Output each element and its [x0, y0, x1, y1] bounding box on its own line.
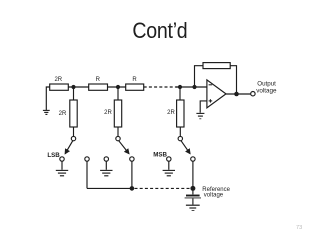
- resistor 2R (vertical, LSB branch): [70, 100, 77, 127]
- svg-text:Output: Output: [257, 80, 276, 87]
- switch S3 blade (arrow to bus throw): [181, 141, 190, 154]
- feedback wire (down to output): [230, 66, 236, 94]
- svg-text:LSB: LSB: [47, 152, 60, 159]
- wire resistor to switch pole: [179, 127, 181, 136]
- ground (op-amp non-inverting input): [196, 113, 204, 118]
- resistor 2R (top rail, horizontal): [50, 84, 69, 90]
- switch S2 pole terminal: [116, 136, 120, 140]
- node A (junction dot): [71, 85, 75, 89]
- wire battery to ground: [192, 199, 194, 205]
- svg-text:2R: 2R: [104, 110, 112, 116]
- svg-text:R: R: [96, 77, 101, 83]
- switch S1 pole terminal: [71, 136, 75, 140]
- page number: [296, 225, 302, 231]
- wire plus input to ground: [200, 101, 207, 113]
- node D feedback tap (junction dot): [192, 85, 196, 89]
- switch S1 bus throw terminal: [85, 157, 89, 161]
- svg-text:2R: 2R: [59, 111, 67, 117]
- svg-text:voltage: voltage: [204, 192, 224, 198]
- resistor R (top rail, second): [89, 84, 108, 90]
- node C (junction dot): [178, 85, 182, 89]
- switch S2 ground throw terminal: [104, 157, 108, 161]
- svg-text:2R: 2R: [54, 77, 62, 83]
- resistor 2R (vertical, middle branch): [114, 100, 121, 127]
- switch S3 pole terminal: [178, 136, 182, 140]
- output terminal: [251, 92, 255, 96]
- svg-text:voltage: voltage: [256, 88, 277, 95]
- output junction dot: [234, 92, 239, 97]
- wire bus throw down to reference bus: [192, 161, 194, 188]
- reference bus wire (dashed part): [135, 187, 190, 189]
- op-amp minus input marker: [209, 84, 213, 86]
- feedback resistor: [203, 63, 230, 69]
- switch S3 bus throw terminal: [191, 157, 195, 161]
- wire throw to ground: [168, 161, 170, 170]
- switch S1 ground throw terminal: [60, 157, 64, 161]
- wire from left ground up to resistor 2R: [46, 87, 49, 110]
- switch S1 blade (arrow to ground throw): [65, 141, 73, 154]
- battery (reference voltage source): [185, 196, 201, 198]
- ground (LSB switch): [56, 170, 68, 175]
- slide title Cont'd: [0, 18, 320, 44]
- bus junction dot: [130, 186, 135, 191]
- resistor 2R (vertical, MSB branch): [177, 100, 184, 127]
- wire throw to ground: [61, 161, 63, 170]
- resistor R (top rail, third): [126, 84, 144, 90]
- svg-text:R: R: [132, 77, 137, 83]
- svg-text:2R: 2R: [167, 110, 175, 116]
- wire node B down: [117, 87, 119, 100]
- feedback wire (up from node D): [195, 66, 204, 87]
- node B (junction dot): [116, 85, 120, 89]
- ground (left of top rail): [43, 110, 50, 114]
- wire from node C to op-amp inverting input: [176, 86, 207, 88]
- output wire: [226, 93, 251, 95]
- wire node A down: [73, 87, 75, 100]
- wire resistor to switch pole: [73, 127, 75, 136]
- ground (middle switch): [100, 170, 112, 175]
- ground (MSB switch): [163, 170, 175, 175]
- wire node to battery: [192, 188, 194, 194]
- wire throw to ground: [105, 161, 107, 170]
- wire bus throw down to reference bus: [131, 161, 133, 188]
- op-amp plus input marker: [209, 99, 213, 102]
- wire bus throw down to reference bus: [86, 161, 88, 188]
- wire between 2R and first R: [68, 86, 88, 88]
- op-amp U1: [207, 80, 226, 108]
- wire resistor to switch pole: [117, 127, 119, 136]
- reference bus wire (solid part): [87, 187, 132, 189]
- svg-text:MSB: MSB: [153, 152, 167, 159]
- switch S3 ground throw terminal: [167, 157, 171, 161]
- ground (reference): [186, 205, 200, 210]
- wire between R and R: [108, 86, 126, 88]
- switch S2 bus throw terminal: [130, 157, 134, 161]
- reference node dot: [190, 186, 195, 191]
- switch S2 blade (arrow to bus throw): [119, 141, 129, 154]
- dashed wire (ladder continues): [144, 86, 178, 88]
- wire node C down: [179, 87, 181, 100]
